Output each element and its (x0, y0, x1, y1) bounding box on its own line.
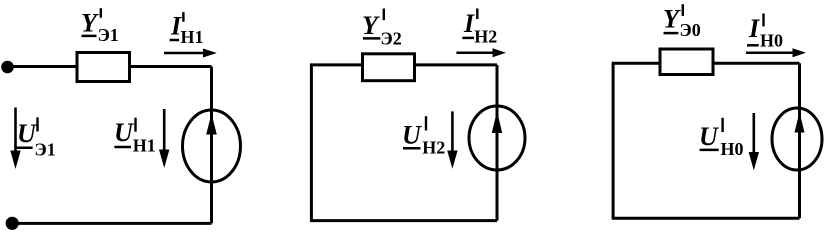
label U'Э1 (15, 117, 56, 159)
svg-text:Н0: Н0 (760, 30, 783, 50)
wire bottom (circuit 1) (12, 222, 211, 225)
svg-text:I: I (463, 9, 475, 38)
svg-text:Y: Y (362, 11, 380, 40)
svg-text:U: U (114, 118, 134, 147)
wire top (circuit 2) (310, 63, 497, 66)
svg-text:Y: Y (663, 5, 681, 34)
arrow U'Н0 (749, 113, 759, 170)
terminal node b (bottom left dot) (6, 217, 19, 230)
svg-text:U: U (402, 120, 422, 149)
svg-text:U: U (699, 122, 719, 151)
arrow I'Н2 (456, 48, 506, 57)
arrow of current source J2 (492, 111, 502, 133)
wire right (circuit 3) (798, 63, 801, 218)
wire bottom (circuit 3) (612, 217, 800, 220)
label Y'Э2 (362, 9, 402, 49)
svg-text:Э1: Э1 (98, 25, 119, 45)
current source J1 (183, 110, 241, 182)
svg-text:Э1: Э1 (35, 140, 56, 160)
current source J2 (469, 106, 525, 170)
wire left (circuit 3) (612, 63, 615, 218)
wire top (circuit 1) (8, 65, 212, 68)
svg-text:I: I (748, 14, 760, 43)
admittance box Y'Э0 (660, 49, 713, 75)
label I'Н1 (170, 12, 204, 48)
svg-text:Н2: Н2 (422, 138, 445, 158)
svg-text:Э0: Э0 (680, 20, 701, 40)
label U'Н2 (402, 116, 445, 157)
label I'Н0 (747, 14, 783, 51)
wire left (circuit 2) (310, 65, 313, 221)
arrow U'Э1 (10, 108, 20, 170)
arrow of current source J1 (206, 114, 217, 135)
svg-text:Н2: Н2 (474, 26, 497, 46)
svg-text:Н1: Н1 (133, 136, 156, 156)
svg-text:Э2: Э2 (381, 28, 402, 48)
label Y'Э0 (663, 4, 701, 40)
admittance box Y'Э1 (77, 53, 130, 82)
arrow of current source J3 (795, 112, 805, 133)
arrow U'Н2 (447, 111, 457, 168)
wire bottom (circuit 2) (310, 219, 497, 222)
label I'Н2 (462, 9, 497, 47)
admittance box Y'Э2 (363, 54, 415, 81)
svg-text:Н0: Н0 (721, 139, 744, 159)
terminal node a (top left dot) (1, 61, 14, 74)
wire right (circuit 2) (496, 65, 499, 221)
label U'Н1 (114, 118, 156, 156)
label Y'Э1 (81, 8, 119, 45)
wire top (circuit 3) (612, 62, 800, 65)
current source J3 (772, 108, 822, 170)
arrow I'Н0 (746, 48, 806, 57)
wire right (circuit 1) (210, 67, 213, 224)
svg-text:Н1: Н1 (181, 27, 204, 47)
svg-text:Y: Y (81, 9, 99, 38)
label U'Н0 (699, 118, 744, 159)
arrow I'Н1 (164, 49, 217, 58)
arrow U'Н1 (159, 109, 169, 168)
